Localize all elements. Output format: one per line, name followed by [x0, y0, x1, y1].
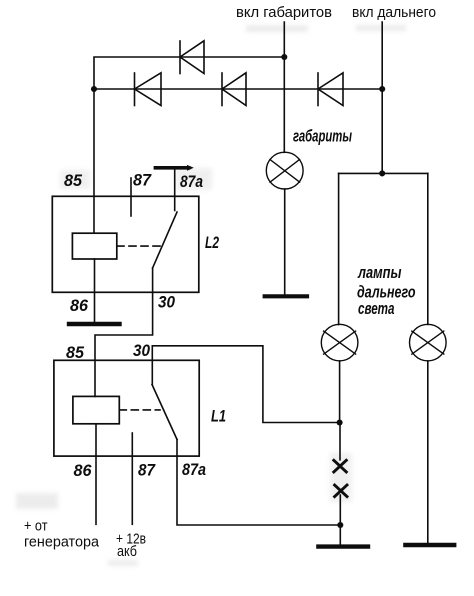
label: + от генератора: [24, 518, 100, 551]
svg-text:света: света: [358, 299, 395, 318]
node: junction дальний bus: [379, 170, 385, 176]
dashed link: L2 coil to contact: [117, 245, 160, 247]
relay L2 box: [52, 196, 199, 292]
svg-text:86: 86: [74, 461, 93, 480]
wire: L1 coil pin 86 lead: [95, 424, 97, 525]
wire: pin 85 lead from lower bus into L2 coil: [93, 89, 95, 233]
label: лампы дальнего света: [357, 263, 416, 318]
svg-text:87a: 87a: [182, 460, 206, 479]
svg-text:87a: 87a: [180, 172, 203, 191]
svg-text:L2: L2: [205, 233, 219, 252]
diode VD3 (lower bus, middle): [222, 73, 246, 106]
wire: vertical from вкл дальнего switch down to lamp bus: [381, 22, 383, 173]
wire: upper bus y=57 from x94 to x284 with corner down at left: [94, 57, 284, 89]
svg-text:вкл габаритов: вкл габаритов: [236, 4, 332, 21]
ground: right bottom: [405, 543, 454, 547]
wire: bus to left head lamp: [338, 173, 340, 324]
svg-text:лампы: лампы: [357, 263, 402, 282]
wire: head lamp bus: [339, 172, 428, 174]
node: junction вкл габаритов / upper bus: [281, 54, 287, 60]
terminal bar with arrow at L2 87a: [155, 165, 193, 171]
relay L2 coil: [72, 233, 116, 259]
svg-text:вкл дальнего: вкл дальнего: [352, 4, 436, 21]
lamp EL3 дальний свет right: [410, 324, 447, 361]
wire: lower bus y=89 from x94 to x382: [94, 88, 382, 90]
connector cross X1: [334, 460, 347, 472]
wire: vertical from вкл габаритов switch down to lamp габариты: [283, 22, 285, 152]
diode VD2 (lower bus, left): [135, 73, 162, 106]
wire: 87a terminal drop into L2: [174, 170, 176, 211]
ground: left bottom: [318, 544, 368, 548]
node: junction left bus corner: [91, 86, 97, 92]
relay L1 coil: [73, 396, 119, 423]
svg-text:габариты: габариты: [293, 126, 352, 145]
wire: L1 pin 30 stub and feed to lamps: [152, 346, 339, 423]
diode VD1 (upper bus): [180, 41, 204, 74]
svg-text:86: 86: [70, 296, 89, 315]
svg-text:30: 30: [158, 293, 175, 312]
wire: L2 pin 30 down, jog left, into L1 pin 85 and coil: [95, 268, 153, 396]
svg-text:85: 85: [66, 343, 85, 362]
svg-text:+ от: + от: [24, 518, 48, 535]
svg-text:генератора: генератора: [24, 534, 100, 551]
ground: L2 pin 86: [69, 322, 120, 326]
node: junction left lamp return: [337, 419, 343, 425]
svg-text:L1: L1: [211, 407, 226, 426]
diode VD4 (lower bus, right): [318, 73, 343, 106]
relay L1 contact arm: [152, 385, 177, 440]
svg-text:87: 87: [138, 461, 156, 480]
wire: L1 pin 87a down and right to lamp return: [177, 439, 340, 525]
wire: left head lamp down to junction: [339, 361, 341, 423]
relay L2 contact arm: [153, 212, 177, 268]
lamp EL1 габариты: [266, 152, 303, 189]
wire: L2 pin 87 stub: [130, 178, 132, 216]
wire: lamp габариты to ground: [284, 189, 286, 295]
connector cross X2: [335, 485, 347, 497]
lamp EL2 дальний свет left: [321, 324, 358, 361]
relay L1 box: [54, 360, 199, 456]
wire: break to ground junction: [339, 495, 341, 525]
svg-text:акб: акб: [117, 543, 137, 560]
wire: right head lamp to ground: [427, 361, 429, 543]
dashed link: L1 coil to contact: [119, 409, 160, 411]
wire: junction down to break: [339, 423, 341, 460]
node: junction вкл дальнего / lower bus: [379, 86, 385, 92]
wire: L1 pin 87 lead: [131, 433, 133, 524]
node: junction ground return: [337, 522, 343, 528]
label: + 12в акб: [116, 530, 146, 560]
svg-text:87: 87: [133, 171, 152, 190]
wire: L2 coil to pin 86 ground: [94, 259, 96, 322]
wire: junction to ground: [339, 525, 341, 545]
svg-text:30: 30: [133, 341, 150, 360]
wire: bus to right head lamp: [427, 173, 429, 324]
svg-text:85: 85: [64, 171, 83, 190]
ground: under lamp габариты: [265, 294, 307, 298]
